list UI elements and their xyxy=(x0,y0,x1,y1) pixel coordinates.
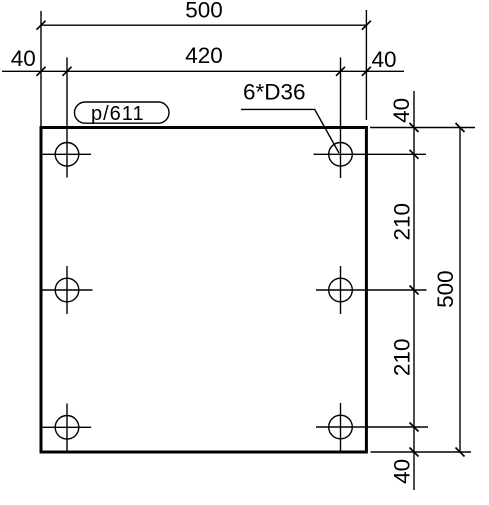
hole H3 centerline horizontal xyxy=(43,426,92,428)
svg-text:40: 40 xyxy=(389,98,414,123)
tick at (41,71.3) xyxy=(37,67,46,76)
hole H3 centerline vertical xyxy=(66,404,68,451)
tick at (67,71.3) xyxy=(63,67,72,76)
hole H6 centerline vertical xyxy=(340,403,342,451)
hole H1 centerline vertical (merged with extension line x=67) xyxy=(66,57,68,177)
extension line left x=41 xyxy=(40,11,42,126)
tick at (366.4,25.2) xyxy=(362,21,371,30)
hole H6 centerline horizontal extended to right dim line xyxy=(316,426,428,428)
svg-text:p/611: p/611 xyxy=(91,103,145,125)
svg-text:40: 40 xyxy=(390,459,415,484)
hole H5 middle-right circle xyxy=(329,278,353,302)
hole H4 centerline vertical (merged with extension line x=340.5) xyxy=(340,57,342,178)
tick at (414,127.5) xyxy=(410,123,419,132)
hole H1 centerline horizontal xyxy=(43,153,91,155)
dimension line 500 right outer xyxy=(459,128,461,453)
leader line for 6*D36 xyxy=(241,109,339,153)
svg-text:500: 500 xyxy=(185,0,223,23)
tick at (41,25.2) xyxy=(37,21,46,30)
tick at (414,452) xyxy=(410,448,419,457)
label stadium p/611 xyxy=(75,102,170,123)
svg-text:420: 420 xyxy=(185,43,223,68)
dimension line 40/210/210/40 right inner xyxy=(413,91,415,490)
dimension line 500 top xyxy=(41,24,366,26)
plate outline xyxy=(41,128,366,453)
svg-text:40: 40 xyxy=(371,47,396,72)
svg-text:210: 210 xyxy=(390,339,415,377)
extension line right x=366.4 xyxy=(365,10,367,120)
hole H2 centerline vertical xyxy=(66,266,68,314)
svg-text:500: 500 xyxy=(433,270,458,308)
tick at (414,290) xyxy=(410,286,419,295)
tick at (459.5,127.5) xyxy=(456,123,465,132)
extension line top edge to right dims y=127.5 xyxy=(370,127,475,129)
hole H4 centerline horizontal extended to right dim line xyxy=(314,153,427,155)
svg-text:6*D36: 6*D36 xyxy=(243,80,306,105)
hole H4 top-right circle xyxy=(329,143,353,167)
hole H5 centerline vertical xyxy=(340,266,342,314)
tick at (366.4,71.3) xyxy=(362,67,371,76)
hole H5 centerline horizontal extended to right dim line xyxy=(316,289,427,291)
hole H3 bottom-left circle xyxy=(55,416,79,440)
hole H2 centerline horizontal xyxy=(43,289,93,291)
hole H6 bottom-right circle xyxy=(329,415,353,439)
tick at (340.5,71.3) xyxy=(336,67,345,76)
hole H1 top-left circle xyxy=(55,143,79,167)
svg-text:40: 40 xyxy=(11,46,36,71)
extension line bottom edge to right dims y=452 xyxy=(371,451,472,453)
hole H2 middle-left circle xyxy=(55,278,79,302)
tick at (414,154.3) xyxy=(410,150,419,159)
svg-text:210: 210 xyxy=(390,203,415,241)
tick at (459.5,452) xyxy=(456,448,465,457)
tick at (414,427) xyxy=(410,423,419,432)
dimension line 40/420/40 top xyxy=(2,70,404,72)
